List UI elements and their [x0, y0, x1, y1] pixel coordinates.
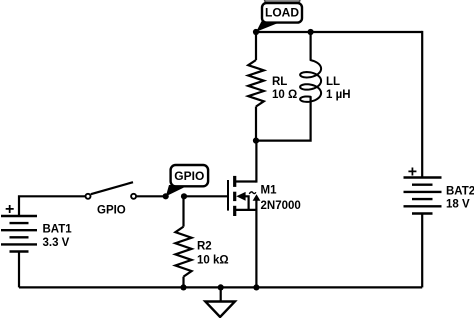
wire switch to GPIO node	[137, 195, 166, 197]
wire BAT2 bottom lead	[421, 214, 423, 288]
wire BAT1 bottom lead	[18, 252, 20, 288]
flag LOAD	[256, 3, 302, 32]
svg-text:1 µH: 1 µH	[326, 89, 351, 101]
node R2 top junction	[181, 193, 187, 199]
wire BAT2 top lead	[421, 31, 423, 178]
svg-text:18 V: 18 V	[446, 199, 470, 211]
wire BAT1 top to switch	[19, 196, 85, 216]
svg-text:BAT1: BAT1	[43, 224, 73, 236]
wire M1 source to rail	[255, 200, 257, 288]
svg-text:10 kΩ: 10 kΩ	[197, 255, 229, 267]
switch GPIO	[86, 182, 137, 216]
svg-text:M1: M1	[261, 185, 278, 197]
svg-text:R2: R2	[197, 241, 212, 253]
svg-text:LOAD: LOAD	[265, 5, 299, 19]
svg-text:GPIO: GPIO	[97, 205, 126, 217]
inductor LL	[300, 60, 321, 102]
svg-text:RL: RL	[272, 76, 287, 88]
flag GPIO	[166, 165, 208, 196]
wire bottom rail	[19, 286, 422, 288]
node ground junction	[218, 284, 224, 290]
resistor R2	[175, 227, 191, 277]
svg-text:LL: LL	[326, 76, 340, 88]
node M1 source junction	[253, 284, 259, 290]
ground	[205, 287, 235, 317]
wire R2 top lead	[182, 196, 184, 226]
svg-text:BAT2: BAT2	[446, 186, 474, 198]
node top-left junction	[253, 29, 259, 35]
svg-text:3.3 V: 3.3 V	[43, 237, 70, 249]
resistor RL	[248, 60, 264, 107]
node inductor top junction	[308, 29, 314, 35]
wire LL branch bottom	[256, 97, 311, 141]
node RL/LL bottom junction	[253, 138, 259, 144]
svg-text:GPIO: GPIO	[174, 169, 204, 183]
grey flag behind LOAD	[265, 0, 301, 4]
battery BAT2	[404, 163, 474, 213]
battery BAT1	[1, 201, 72, 251]
node GPIO flag anchor	[163, 193, 169, 199]
wire RL branch top	[255, 32, 257, 60]
wire R2 bottom lead	[182, 277, 184, 288]
wire drain	[255, 141, 257, 183]
wire top rail	[256, 31, 422, 33]
wire RL branch bottom	[255, 107, 257, 141]
svg-text:2N7000: 2N7000	[261, 200, 301, 212]
node R2 bottom junction	[180, 284, 186, 290]
wire LL branch top	[310, 32, 312, 61]
transistor M1	[184, 176, 301, 216]
svg-text:10 Ω: 10 Ω	[272, 89, 297, 101]
